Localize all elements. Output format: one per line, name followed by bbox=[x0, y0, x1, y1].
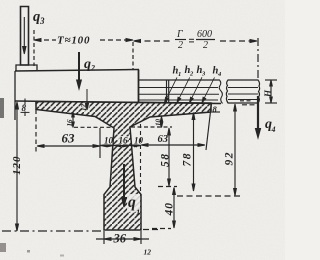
dashes near q4 bbox=[242, 104, 258, 106]
centerline right dash-dot bbox=[257, 38, 259, 96]
dim 36 extensions bbox=[103, 231, 105, 244]
dim H ticks bbox=[265, 79, 277, 81]
dim 8 right rotated bbox=[212, 103, 220, 105]
dim 36 line bbox=[96, 238, 149, 241]
load arrow q4 bbox=[255, 96, 260, 138]
dim 16 left small bbox=[72, 112, 75, 128]
wall strip top-left bbox=[21, 7, 29, 66]
dim 10-16-10 arrows bbox=[100, 144, 141, 147]
layer line 4 bbox=[139, 99, 219, 101]
leader h3 bbox=[190, 77, 203, 103]
dashed extension x=141 bbox=[140, 124, 142, 191]
dim 8 left of slab bbox=[21, 99, 30, 117]
inner double divider bbox=[166, 80, 168, 103]
dashed line at 92 bottom bbox=[177, 195, 242, 197]
scan edge blob left bbox=[0, 98, 4, 118]
piece layer lines bbox=[228, 87, 258, 89]
dashed base line bottom left bbox=[2, 230, 103, 232]
load arrow q3 bbox=[23, 17, 26, 54]
scan grain overlay bbox=[0, 0, 1, 1]
dash at 58 bottom bbox=[158, 186, 177, 188]
load arrow q1 bbox=[122, 164, 127, 207]
wall face left bbox=[14, 71, 16, 120]
dim 63 right line bbox=[141, 144, 205, 147]
dim 63 left line bbox=[37, 145, 100, 148]
dim 58 line bbox=[168, 128, 171, 186]
leader h2 bbox=[177, 77, 190, 102]
layer line 3 bbox=[139, 93, 220, 95]
hatched concrete section (slab + rib + bottom block) bbox=[36, 102, 211, 231]
haunch dashed line left bbox=[74, 126, 113, 128]
slab top line bbox=[15, 101, 221, 104]
dashed line at 40 bottom bbox=[152, 228, 171, 230]
top line of left band bbox=[15, 70, 139, 72]
dim 16 halo bbox=[118, 136, 128, 145]
dim 10 halo bbox=[103, 137, 113, 145]
haunch dashed line right bbox=[131, 126, 172, 128]
dim 40 line bbox=[173, 188, 176, 229]
dim H line bbox=[270, 80, 273, 103]
dimension T~100 extension right bbox=[132, 42, 134, 70]
dimension T~100 extension left bbox=[33, 30, 35, 66]
load arrow q2 bbox=[77, 52, 82, 89]
small arrow slab thickness bbox=[86, 89, 89, 110]
dim 120 line bbox=[16, 102, 19, 231]
dimension L/2=600/2 line bbox=[134, 40, 258, 43]
dim 92 line bbox=[234, 104, 237, 196]
layers top line bbox=[139, 79, 220, 81]
dim 8 halo bbox=[21, 105, 28, 112]
dimension text G/2 = 600/2 bbox=[176, 29, 183, 51]
floor layers band: left thick edge bbox=[138, 70, 140, 104]
bearing step block bbox=[16, 65, 37, 71]
detached slab piece right bbox=[226, 80, 259, 103]
extension line x=100 bbox=[99, 128, 101, 158]
layer line 2 bbox=[139, 87, 219, 89]
speckle dot bbox=[27, 250, 30, 253]
dashed wall inner edge bbox=[35, 102, 37, 152]
dimension T~100 line bbox=[34, 39, 133, 42]
dim 10 halo bbox=[133, 137, 143, 145]
label q1 halo bbox=[127, 194, 140, 212]
extension line right of hatch bbox=[206, 103, 212, 150]
halo for dim 12 bbox=[82, 104, 90, 113]
scan blob bottom-left bbox=[0, 243, 6, 252]
dim 10 right rotated bbox=[160, 117, 162, 128]
dim 78 line bbox=[192, 113, 195, 192]
leader h1 bbox=[165, 77, 178, 102]
leader h4 bbox=[202, 77, 215, 102]
break edge wavy right of layers bbox=[219, 80, 223, 104]
